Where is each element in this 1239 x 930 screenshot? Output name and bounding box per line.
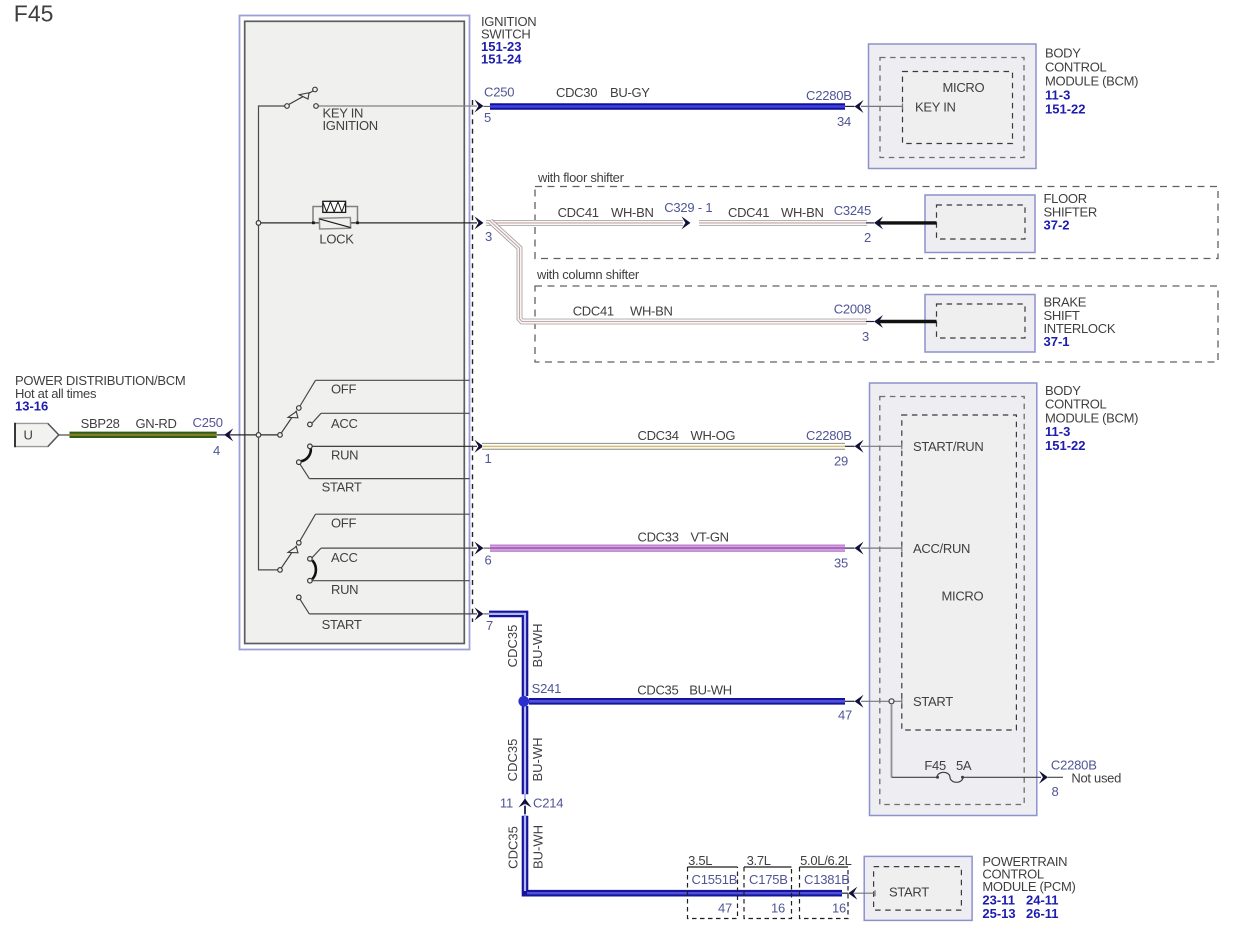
svg-text:3: 3 — [862, 329, 869, 344]
svg-text:U: U — [24, 428, 33, 443]
svg-text:37-2: 37-2 — [1044, 218, 1070, 233]
svg-text:ACC: ACC — [331, 416, 358, 431]
svg-text:47: 47 — [838, 708, 852, 723]
svg-text:START: START — [322, 617, 362, 632]
svg-text:BU-GY: BU-GY — [610, 85, 650, 100]
svg-text:BU-WH: BU-WH — [531, 825, 546, 869]
svg-text:C250: C250 — [484, 85, 514, 100]
svg-text:5.0L/6.2L: 5.0L/6.2L — [800, 853, 852, 868]
svg-text:CDC34: CDC34 — [638, 428, 679, 443]
svg-text:ACC: ACC — [331, 550, 358, 565]
svg-text:C250: C250 — [193, 415, 223, 430]
svg-text:37-1: 37-1 — [1044, 334, 1070, 349]
svg-text:WH-OG: WH-OG — [691, 428, 736, 443]
svg-text:2: 2 — [864, 230, 871, 245]
svg-text:WH-BN: WH-BN — [630, 303, 673, 318]
svg-text:BODY: BODY — [1045, 46, 1081, 61]
svg-text:3: 3 — [485, 229, 492, 244]
svg-text:5: 5 — [484, 110, 491, 125]
svg-text:11-3: 11-3 — [1045, 88, 1070, 103]
svg-text:151-24: 151-24 — [481, 51, 522, 66]
svg-text:CDC35: CDC35 — [506, 826, 521, 869]
svg-text:START: START — [889, 885, 929, 900]
svg-text:5A: 5A — [956, 758, 972, 773]
svg-text:3.5L: 3.5L — [688, 853, 712, 868]
svg-text:with column shifter: with column shifter — [536, 267, 640, 282]
svg-text:START: START — [913, 694, 953, 709]
svg-text:C2008: C2008 — [834, 302, 871, 317]
svg-text:BU-WH: BU-WH — [689, 683, 732, 698]
svg-text:BU-WH: BU-WH — [530, 623, 545, 667]
svg-text:OFF: OFF — [331, 382, 356, 397]
svg-text:16: 16 — [832, 901, 846, 916]
svg-text:Not used: Not used — [1071, 771, 1121, 786]
svg-text:4: 4 — [213, 443, 220, 458]
svg-text:C175B: C175B — [749, 872, 788, 887]
svg-text:MODULE (BCM): MODULE (BCM) — [1045, 74, 1138, 89]
svg-text:CDC33: CDC33 — [638, 530, 679, 545]
svg-text:START: START — [322, 480, 362, 495]
svg-text:CDC35: CDC35 — [505, 625, 520, 668]
svg-text:C1381B: C1381B — [804, 872, 850, 887]
svg-text:C3245: C3245 — [834, 203, 871, 218]
svg-text:25-13: 25-13 — [982, 906, 1015, 921]
svg-text:CDC41: CDC41 — [573, 303, 614, 318]
svg-text:with floor shifter: with floor shifter — [537, 170, 625, 185]
svg-text:151-22: 151-22 — [1045, 102, 1085, 117]
svg-text:RUN: RUN — [331, 448, 358, 463]
svg-text:WH-BN: WH-BN — [781, 205, 824, 220]
svg-text:34: 34 — [837, 114, 851, 129]
svg-text:VT-GN: VT-GN — [691, 530, 729, 545]
svg-text:7: 7 — [486, 618, 493, 633]
svg-text:13-16: 13-16 — [15, 399, 48, 414]
svg-text:1: 1 — [485, 451, 492, 466]
svg-text:3.7L: 3.7L — [747, 853, 771, 868]
svg-text:6: 6 — [485, 553, 492, 568]
svg-text:CDC41: CDC41 — [558, 205, 599, 220]
svg-text:RUN: RUN — [331, 582, 358, 597]
svg-text:MICRO: MICRO — [943, 80, 985, 95]
svg-text:C1551B: C1551B — [692, 872, 738, 887]
svg-text:LOCK: LOCK — [319, 232, 354, 247]
svg-text:CDC30: CDC30 — [556, 85, 597, 100]
svg-text:GN-RD: GN-RD — [136, 416, 177, 431]
svg-text:IGNITION: IGNITION — [323, 118, 378, 133]
svg-text:C2280B: C2280B — [806, 88, 852, 103]
svg-text:WH-BN: WH-BN — [611, 205, 654, 220]
svg-text:KEY IN: KEY IN — [915, 100, 956, 115]
svg-text:MICRO: MICRO — [942, 589, 984, 604]
svg-text:C2280B: C2280B — [806, 428, 852, 443]
svg-text:11: 11 — [500, 796, 513, 811]
svg-text:29: 29 — [834, 454, 848, 469]
svg-text:151-22: 151-22 — [1045, 438, 1085, 453]
svg-text:8: 8 — [1052, 784, 1059, 799]
svg-text:START/RUN: START/RUN — [913, 439, 984, 454]
svg-text:47: 47 — [718, 901, 732, 916]
svg-text:CDC41: CDC41 — [728, 205, 769, 220]
svg-text:CDC35: CDC35 — [637, 683, 678, 698]
svg-text:35: 35 — [834, 556, 848, 571]
svg-text:BU-WH: BU-WH — [530, 737, 545, 781]
svg-text:CONTROL: CONTROL — [1045, 60, 1107, 75]
svg-text:OFF: OFF — [331, 516, 356, 531]
svg-text:S241: S241 — [532, 681, 562, 696]
svg-text:26-11: 26-11 — [1026, 906, 1059, 921]
svg-text:C214: C214 — [533, 796, 563, 811]
svg-text:C329 - 1: C329 - 1 — [664, 200, 712, 215]
svg-text:CDC35: CDC35 — [505, 739, 520, 782]
svg-text:F45: F45 — [14, 1, 54, 27]
svg-text:F45: F45 — [924, 758, 946, 773]
svg-text:16: 16 — [771, 901, 785, 916]
svg-text:ACC/RUN: ACC/RUN — [913, 541, 970, 556]
svg-text:SBP28: SBP28 — [81, 416, 120, 431]
